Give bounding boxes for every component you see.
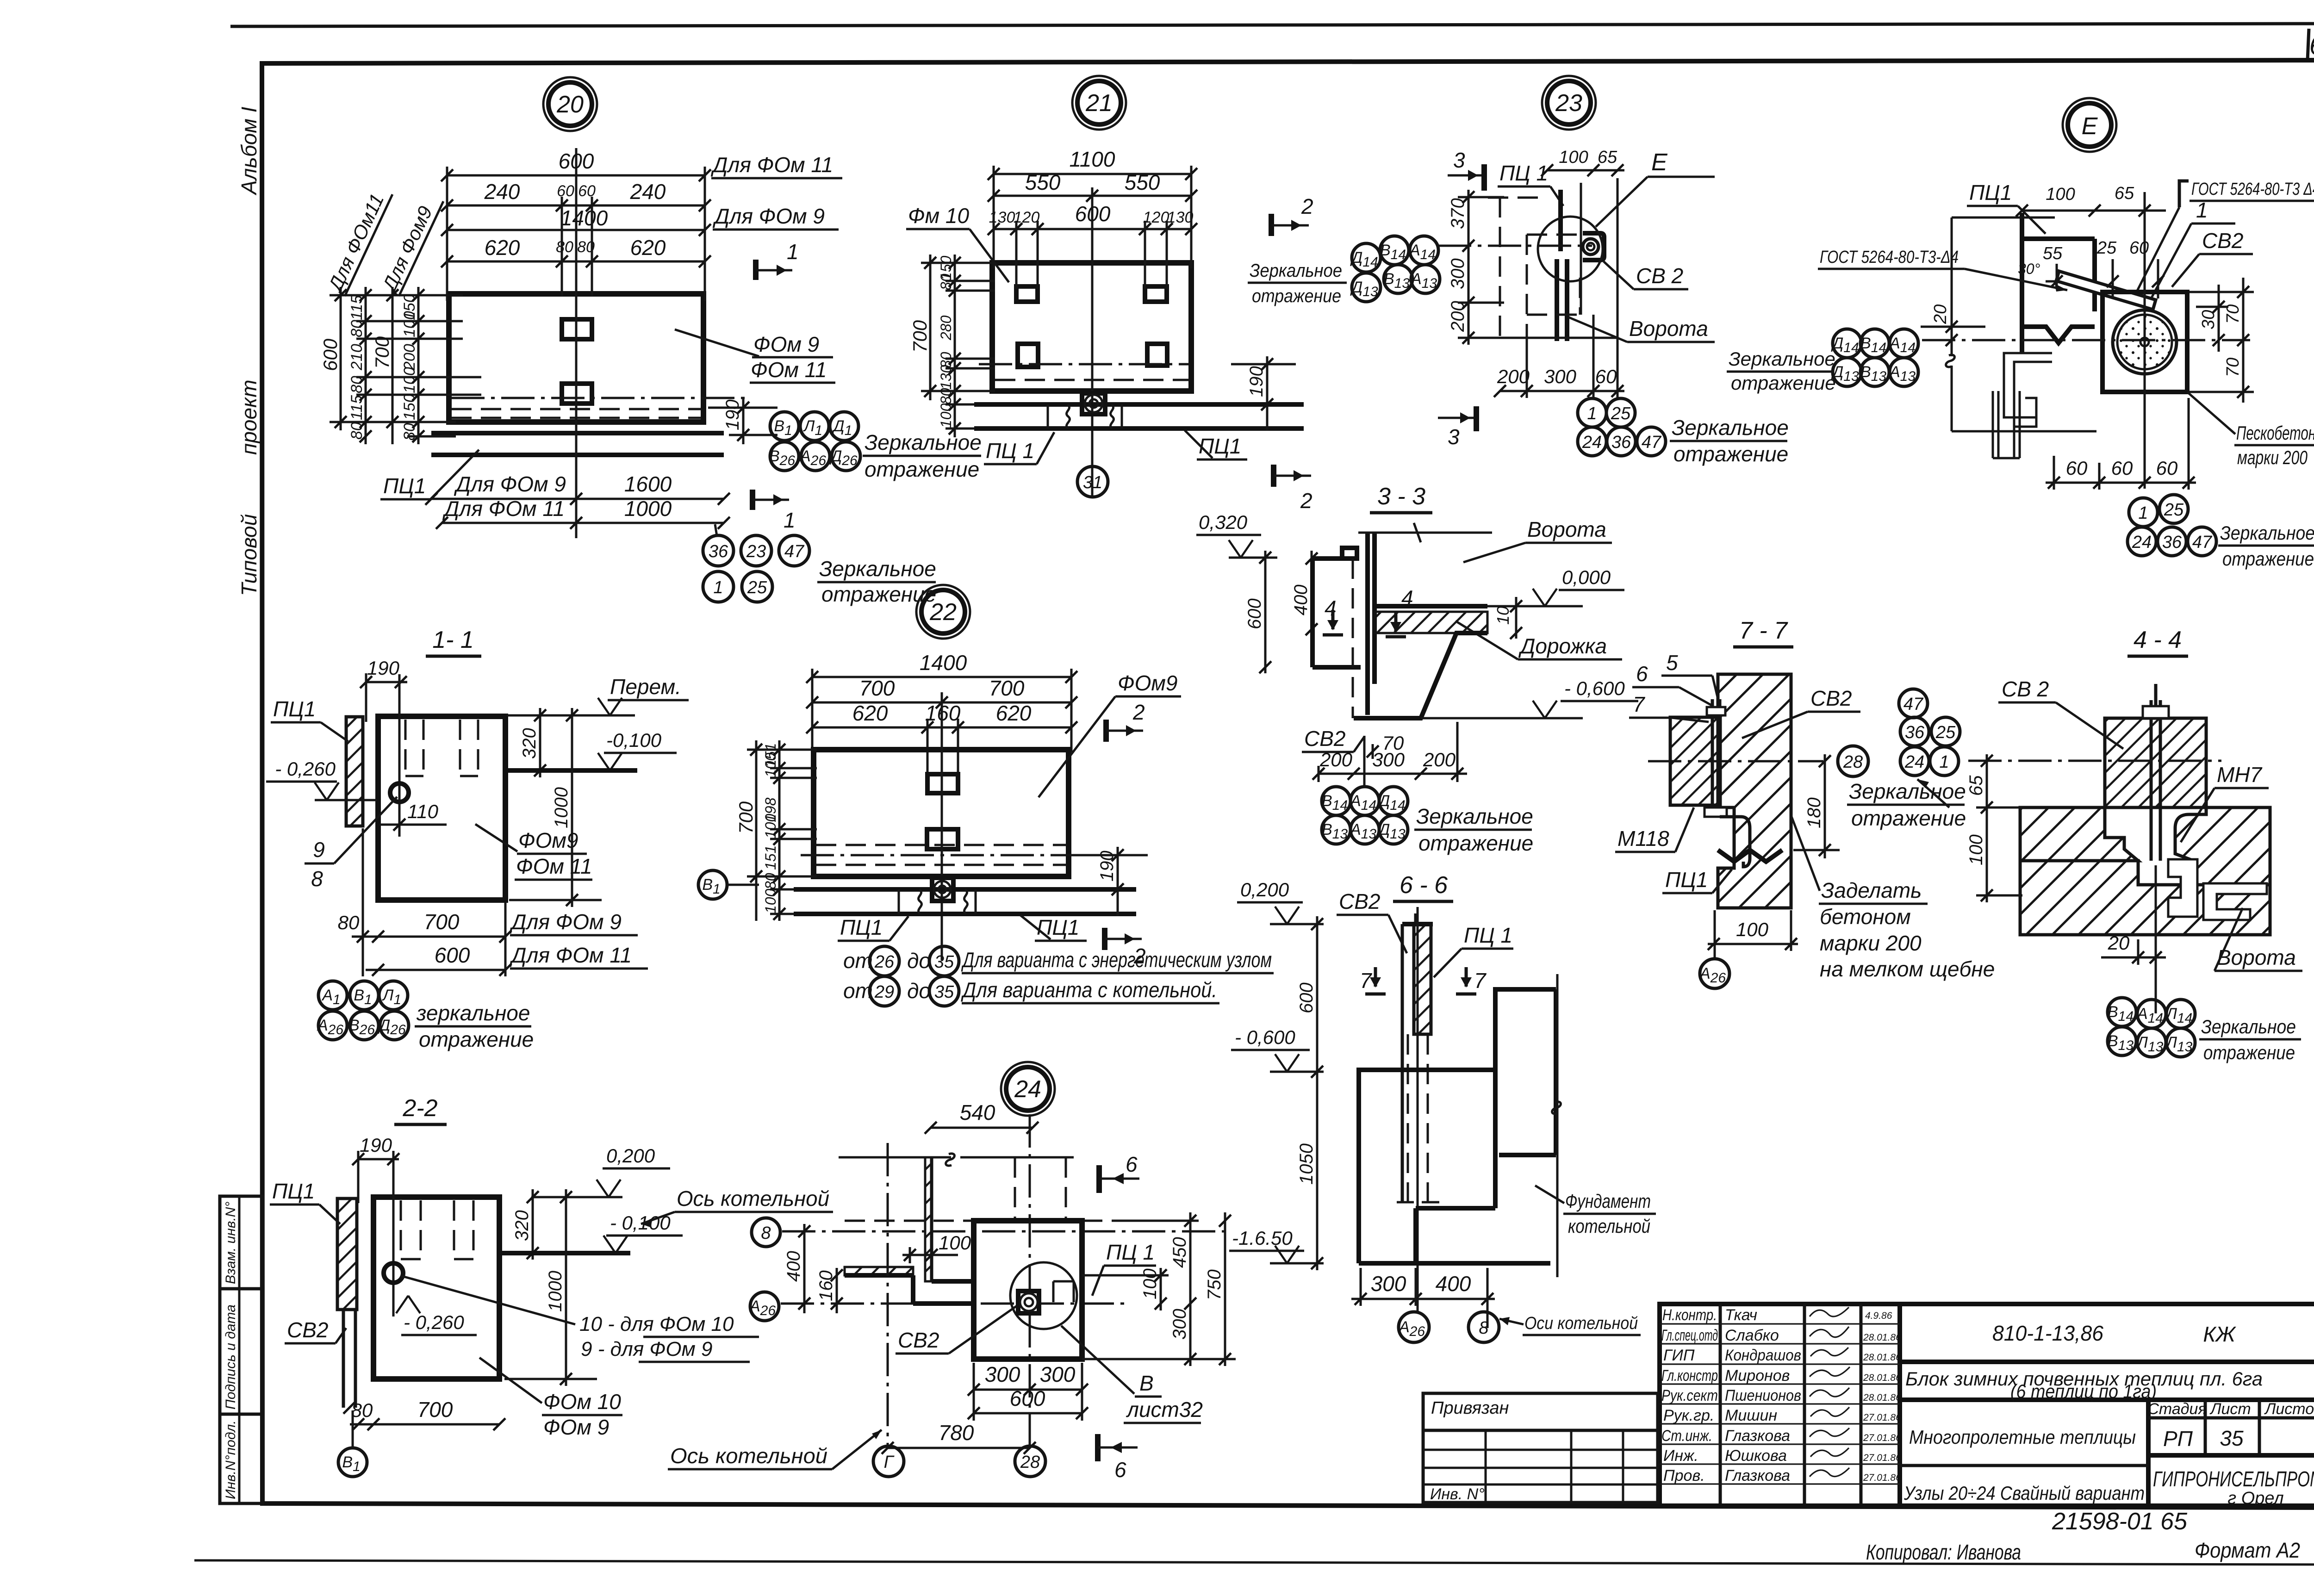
svg-text:600: 600 xyxy=(319,338,341,371)
dim 100 7-7 xyxy=(1708,910,1798,951)
axis 8 circle xyxy=(752,1218,780,1247)
svg-text:22: 22 xyxy=(929,599,957,626)
label ПЦ1 7-7 xyxy=(1662,868,1732,893)
svg-text:1050: 1050 xyxy=(1296,1143,1317,1185)
node 23 bottom dims 200 300 60 xyxy=(1494,178,1624,398)
svg-text:4: 4 xyxy=(1325,596,1337,620)
svg-text:ПЦ1: ПЦ1 xyxy=(1037,915,1079,939)
dim extensions xyxy=(812,669,1071,777)
dim 550 550 xyxy=(988,170,1197,202)
svg-text:отражение: отражение xyxy=(1673,442,1788,466)
foundation block 2-2 xyxy=(373,1197,499,1379)
svg-text:130: 130 xyxy=(1167,209,1194,226)
circles 1 25 24 36 47 node23 xyxy=(1578,398,1666,456)
dim extensions node21 xyxy=(994,166,1191,289)
svg-text:ФОм9: ФОм9 xyxy=(518,828,578,852)
left dim 400 xyxy=(1291,551,1318,657)
svg-text:1: 1 xyxy=(713,578,723,597)
circles 47 36 25 24 1 7-7 xyxy=(1899,689,1960,776)
svg-text:Зеркальное: Зеркальное xyxy=(819,557,936,581)
dim 780 24 xyxy=(882,1421,1036,1454)
svg-text:на мелком щебне: на мелком щебне xyxy=(1820,957,1995,981)
lintel edge thick 2-2 xyxy=(499,1251,630,1255)
svg-text:110: 110 xyxy=(407,801,439,822)
elevation -0,100 xyxy=(598,729,677,770)
node 23 centerline horizontal xyxy=(1438,245,1592,247)
svg-text:24: 24 xyxy=(1904,752,1924,772)
circle 31 xyxy=(1077,466,1108,497)
leader to circles xyxy=(715,524,717,536)
dim 320 2-2 xyxy=(512,1189,539,1260)
svg-text:120: 120 xyxy=(1143,209,1169,226)
centerline horizontal E xyxy=(1922,339,2250,342)
svg-text:100: 100 xyxy=(939,1232,971,1254)
svg-text:ФОм 11: ФОм 11 xyxy=(751,358,827,382)
svg-text:47: 47 xyxy=(784,542,805,561)
svg-text:- 0,260: - 0,260 xyxy=(275,758,336,780)
left dim column lines xyxy=(330,287,481,444)
svg-text:ГОСТ 5264-80-Т3-Δ4: ГОСТ 5264-80-Т3-Δ4 xyxy=(1820,248,1959,267)
node 23 dashed pile outline xyxy=(1488,197,1580,338)
dim 320 xyxy=(519,708,546,777)
label СВ2 node23 xyxy=(1604,261,1688,289)
svg-text:ПЦ1: ПЦ1 xyxy=(383,474,426,498)
svg-text:600: 600 xyxy=(559,149,594,173)
svg-text:Зеркальное: Зеркальное xyxy=(1672,416,1789,440)
dim 1000 xyxy=(509,708,602,907)
svg-text:25: 25 xyxy=(747,578,767,597)
svg-text:Гл.спец.отд: Гл.спец.отд xyxy=(1661,1327,1718,1344)
svg-text:ПЦ1: ПЦ1 xyxy=(272,1179,315,1203)
labels ПЦ1 node21 xyxy=(984,432,1054,464)
svg-text:(6 теплиц по 1га): (6 теплиц по 1га) xyxy=(2010,1380,2157,1402)
label Зеркальное отражение 3-3 xyxy=(1414,804,1533,855)
bottom dims 3-3 xyxy=(1313,722,1467,782)
svg-text:64: 64 xyxy=(2309,31,2314,61)
left dims 65 100 4-4 xyxy=(1976,754,2022,902)
svg-text:240: 240 xyxy=(484,180,520,204)
svg-text:Е: Е xyxy=(1651,149,1668,176)
label Перем. xyxy=(598,675,689,715)
title block outline xyxy=(1660,1304,2314,1506)
svg-text:Ст.инж.: Ст.инж. xyxy=(1661,1427,1712,1445)
svg-text:55: 55 xyxy=(2043,244,2063,263)
svg-text:28.01.86: 28.01.86 xyxy=(1863,1352,1901,1363)
svg-text:проект: проект xyxy=(237,379,261,455)
extension verticals xyxy=(363,828,505,976)
section mark 6 bottom xyxy=(1098,1434,1138,1482)
pile ПЦ1 hatched xyxy=(346,717,363,826)
svg-text:РП: РП xyxy=(2163,1427,2193,1451)
dim 100 65 xyxy=(1541,148,1624,176)
top wall line 24 xyxy=(839,1154,1074,1166)
node 21 dash-dot buried line xyxy=(979,363,1189,366)
svg-text:отражение: отражение xyxy=(2222,548,2314,570)
svg-text:Привязан: Привязан xyxy=(1431,1398,1509,1418)
node 21 left dims xyxy=(921,255,995,437)
bottom dim 600 xyxy=(366,943,648,976)
dim 130 120 600 120 130 xyxy=(988,202,1197,235)
label Заделать бетоном марки 200 на мелком щебне xyxy=(1791,815,1995,981)
label Зеркальное отражение 2 xyxy=(817,557,936,606)
svg-text:80: 80 xyxy=(338,912,360,933)
svg-text:35: 35 xyxy=(934,982,954,1002)
detail circle 21 xyxy=(1072,76,1126,130)
pile dashed 3-3 xyxy=(1352,559,1354,718)
dim row 240 60 60 240 xyxy=(441,180,711,211)
svg-text:до: до xyxy=(907,979,931,1003)
svg-text:Копировал: Иванова: Копировал: Иванова xyxy=(1866,1540,2021,1564)
svg-text:Для ФОм 11: Для ФОм 11 xyxy=(509,943,632,967)
label 9/8 xyxy=(305,797,397,891)
label ФОм 10 ФОм 9 xyxy=(479,1358,622,1439)
anchor circle xyxy=(390,783,409,802)
svg-text:1- 1: 1- 1 xyxy=(432,627,474,653)
dim 400 24 xyxy=(784,1224,810,1313)
bolt plate xyxy=(1082,393,1105,414)
labels 5 6 7 xyxy=(1661,651,1718,699)
svg-text:100: 100 xyxy=(1966,834,1986,865)
svg-text:Лист: Лист xyxy=(2209,1400,2251,1418)
svg-text:- 0,600: - 0,600 xyxy=(1564,677,1625,699)
svg-text:- 0,600: - 0,600 xyxy=(1235,1026,1295,1048)
dim row 620 80 80 620 xyxy=(441,236,711,267)
svg-text:700: 700 xyxy=(735,801,757,834)
centerline 4-4 xyxy=(1968,760,2221,762)
dim 600 top xyxy=(441,149,711,181)
svg-text:21: 21 xyxy=(1085,90,1113,117)
svg-text:600: 600 xyxy=(1010,1386,1045,1410)
bolt plate 24 xyxy=(1018,1291,1039,1313)
left dim 600 6-6 xyxy=(1296,916,1323,1078)
svg-text:1000: 1000 xyxy=(545,1271,566,1312)
stadia block xyxy=(2146,1400,2151,1508)
svg-text:4 - 4: 4 - 4 xyxy=(2134,627,2182,653)
node 20 dashed edge lines xyxy=(451,408,701,410)
elevation 0,320 xyxy=(1196,511,1277,558)
svg-text:7: 7 xyxy=(1474,969,1487,993)
svg-text:190: 190 xyxy=(367,657,400,679)
svg-text:Е: Е xyxy=(2082,113,2098,140)
wall hatched 7-7 xyxy=(1718,674,1791,908)
svg-text:СВ2: СВ2 xyxy=(1339,889,1380,913)
svg-text:М118: М118 xyxy=(1617,826,1669,851)
label ПЦ1 xyxy=(1498,161,1563,206)
svg-text:лист32: лист32 xyxy=(1126,1397,1203,1422)
svg-text:27.01.86: 27.01.86 xyxy=(1863,1453,1901,1463)
trench profile 3-3 xyxy=(1354,633,1487,718)
wall notch 7-7 xyxy=(1718,850,1782,862)
lower slab hatched 4-4 xyxy=(2020,807,2138,861)
svg-text:до: до xyxy=(907,949,931,973)
svg-text:65: 65 xyxy=(1966,775,1986,796)
svg-text:280: 280 xyxy=(938,315,954,341)
node 22 outline xyxy=(814,750,1069,876)
detail circle 24 xyxy=(1001,1062,1055,1116)
svg-text:отражение: отражение xyxy=(1731,372,1836,394)
svg-text:Юшкова: Юшкова xyxy=(1725,1447,1787,1465)
svg-text:1400: 1400 xyxy=(560,206,608,230)
svg-text:Взам. инв.N°: Взам. инв.N° xyxy=(223,1202,238,1284)
svg-text:80: 80 xyxy=(351,1399,373,1421)
СВ2 block hatched 7-7 xyxy=(1670,717,1720,805)
node 23 gate post lines xyxy=(1558,190,1563,251)
svg-text:780: 780 xyxy=(939,1421,974,1445)
svg-text:60: 60 xyxy=(2129,238,2149,258)
label ФОм9 ФОм11 xyxy=(475,824,592,880)
svg-text:80: 80 xyxy=(348,376,366,393)
right dims 30 70 70 E xyxy=(2189,278,2254,403)
axis А26 horizontal dash-dot xyxy=(781,1303,1126,1305)
svg-text:ПЦ 1: ПЦ 1 xyxy=(1499,161,1548,185)
dim 1400 xyxy=(441,206,711,236)
detail circle 22 xyxy=(916,585,970,639)
svg-text:620: 620 xyxy=(852,701,888,725)
bottom dim row Для ФОм 11 1000 xyxy=(436,497,730,529)
svg-text:Для ФОм 11: Для ФОм 11 xyxy=(710,153,833,177)
svg-text:Формат А2: Формат А2 xyxy=(2195,1538,2300,1562)
circle В1 node22 left xyxy=(698,870,759,899)
svg-text:810-1-13,86: 810-1-13,86 xyxy=(1992,1321,2103,1345)
left dim 1050 6-6 xyxy=(1296,1072,1323,1270)
node 20 anchor hole bottom xyxy=(562,384,592,404)
svg-text:400: 400 xyxy=(1436,1272,1471,1296)
svg-text:80: 80 xyxy=(348,422,366,440)
circle 28 xyxy=(1015,1446,1045,1477)
gate post 3-3 xyxy=(1365,532,1370,715)
name table rows xyxy=(1660,1324,1900,1484)
label СВ2 6-6 xyxy=(1337,889,1407,953)
elevation -1.6.50 6-6 xyxy=(1229,1227,1324,1263)
dim 1000 2-2 xyxy=(504,1189,597,1386)
circles 1 25 / 24 36 47 E xyxy=(2127,495,2216,556)
svg-text:100: 100 xyxy=(762,814,779,838)
svg-text:29: 29 xyxy=(874,982,894,1002)
dim 55 25 60 E xyxy=(2043,238,2164,298)
svg-text:100: 100 xyxy=(938,403,954,428)
circles А1 В1 Л1 / А26 В26 Д26 xyxy=(318,981,409,1040)
left dim rotated texts xyxy=(319,294,418,441)
section title 3-3 xyxy=(1370,483,1432,513)
dim 190 xyxy=(352,1134,399,1203)
node 21 footing plan outline xyxy=(992,263,1191,391)
svg-text:20: 20 xyxy=(1931,304,1950,324)
label Ось котельной 2-2 xyxy=(641,1186,833,1227)
dim 10 slab xyxy=(1493,597,1522,639)
elevation -0,260 xyxy=(266,758,377,800)
svg-text:700: 700 xyxy=(909,320,931,353)
circles Д14 В14 А14 / Д13 В13 А13 E xyxy=(1833,329,1918,386)
circles 36 23 47 1 25 xyxy=(703,535,809,602)
svg-text:Зеркальное: Зеркальное xyxy=(1250,261,1342,281)
svg-text:100: 100 xyxy=(1140,1268,1160,1299)
svg-text:Зеркальное: Зеркальное xyxy=(865,430,982,454)
svg-text:6: 6 xyxy=(1114,1458,1126,1482)
svg-text:Зеркальное: Зеркальное xyxy=(1849,779,1966,803)
svg-text:35: 35 xyxy=(2220,1426,2244,1450)
svg-text:СВ 2: СВ 2 xyxy=(2002,677,2049,701)
sloped anchor plate E xyxy=(2056,271,2156,310)
svg-text:151: 151 xyxy=(762,845,779,870)
svg-text:400: 400 xyxy=(1291,584,1311,615)
svg-text:60: 60 xyxy=(557,182,574,200)
svg-text:Листов: Листов xyxy=(2264,1400,2314,1418)
label ПЦ1 6-6 xyxy=(1434,923,1513,977)
label Ворота 4-4 xyxy=(2214,908,2302,971)
svg-text:Гл.констр: Гл.констр xyxy=(1661,1367,1718,1385)
svg-text:1100: 1100 xyxy=(1070,147,1115,171)
svg-text:190: 190 xyxy=(722,399,743,430)
svg-text:2-2: 2-2 xyxy=(402,1095,437,1122)
section 4 marks 3-3 xyxy=(1323,596,1343,635)
axis 8 horizontal dash-dot xyxy=(782,1230,1229,1233)
svg-text:20: 20 xyxy=(556,91,584,118)
leader down to circles 3-3 xyxy=(1363,736,1366,787)
svg-text:бетоном: бетоном xyxy=(1820,905,1911,929)
svg-text:47: 47 xyxy=(1903,695,1924,714)
svg-text:5: 5 xyxy=(1666,651,1678,675)
left dim 600 xyxy=(1244,551,1271,673)
svg-text:600: 600 xyxy=(1244,598,1265,629)
svg-text:620: 620 xyxy=(485,236,520,260)
top elevation line xyxy=(507,714,635,717)
svg-text:620: 620 xyxy=(630,236,666,260)
svg-text:21598-01 65: 21598-01 65 xyxy=(2052,1508,2188,1535)
svg-text:ФОм 10: ФОм 10 xyxy=(543,1390,621,1414)
svg-text:550: 550 xyxy=(1025,170,1061,194)
svg-text:36: 36 xyxy=(1611,433,1631,452)
elevation -0,600 6-6 xyxy=(1231,1026,1324,1072)
circle Г xyxy=(873,1446,904,1477)
wall strip horizontal hatched 24 xyxy=(845,1267,913,1275)
signatures squiggles xyxy=(1810,1307,1850,1477)
svg-text:3 - 3: 3 - 3 xyxy=(1377,483,1425,510)
svg-text:25: 25 xyxy=(1611,404,1631,423)
svg-text:0,000: 0,000 xyxy=(1562,566,1611,588)
svg-text:Кондрашов: Кондрашов xyxy=(1725,1347,1801,1364)
svg-text:Заделать: Заделать xyxy=(1821,878,1922,902)
svg-text:25: 25 xyxy=(2164,500,2184,520)
label Ворота node23 xyxy=(1568,317,1715,342)
sand concrete block E xyxy=(2103,292,2187,392)
svg-text:47: 47 xyxy=(2192,533,2213,552)
label Оси котельной 6-6 xyxy=(1499,1314,1641,1335)
svg-text:ПЦ 1: ПЦ 1 xyxy=(1464,923,1512,947)
svg-text:200: 200 xyxy=(1423,749,1456,770)
gate top line xyxy=(1358,532,1492,534)
svg-text:котельной: котельной xyxy=(1568,1215,1650,1237)
dashed slots 2-2 xyxy=(401,1200,473,1259)
dim 100 24 xyxy=(902,1232,971,1263)
svg-text:27.01.86: 27.01.86 xyxy=(1863,1433,1901,1443)
svg-text:24: 24 xyxy=(1014,1076,1041,1103)
svg-text:ГОСТ 5264-80-Т3 Δ4: ГОСТ 5264-80-Т3 Δ4 xyxy=(2191,180,2314,199)
svg-text:100: 100 xyxy=(1559,148,1588,167)
svg-text:60: 60 xyxy=(2156,457,2178,479)
svg-text:Зеркальное: Зеркальное xyxy=(1729,348,1835,370)
detail circle 23 xyxy=(1542,76,1596,130)
axis Г vertical dash-dot xyxy=(887,1143,889,1446)
elevation -0,600 3-3 xyxy=(1421,677,1638,718)
section mark 3 top xyxy=(1448,148,1484,191)
rotated label Для ФОм 11 left xyxy=(323,190,392,296)
label Зеркальное отражение 4-4 xyxy=(2199,1016,2301,1063)
bolt indicator circle 24 xyxy=(1010,1262,1077,1329)
svg-text:9: 9 xyxy=(313,838,325,862)
svg-text:Зеркальное: Зеркальное xyxy=(2220,522,2314,544)
svg-text:80: 80 xyxy=(348,320,366,337)
svg-text:1: 1 xyxy=(2138,503,2148,523)
step outline 24 xyxy=(913,1275,974,1304)
centerline 2-2 xyxy=(392,1151,395,1317)
leader to 10-для ФОм10 xyxy=(401,1276,759,1362)
centerline 6-6 xyxy=(1417,907,1419,1312)
node 23 weld plate with bolt xyxy=(1583,233,1604,260)
svg-text:4.9.86: 4.9.86 xyxy=(1865,1310,1892,1321)
svg-text:0,200: 0,200 xyxy=(606,1145,655,1167)
detail circle Е xyxy=(2063,98,2116,152)
paper top edge xyxy=(230,24,2314,26)
label Ворота 3-3 xyxy=(1463,517,1612,562)
lintel edge thick line xyxy=(505,768,637,773)
svg-text:65: 65 xyxy=(1598,148,1617,167)
svg-text:80: 80 xyxy=(938,273,954,290)
svg-text:300: 300 xyxy=(1371,1272,1406,1296)
svg-text:300: 300 xyxy=(1040,1362,1076,1386)
svg-text:190: 190 xyxy=(1246,366,1267,397)
svg-text:0,200: 0,200 xyxy=(1240,879,1289,900)
label СВ2 2-2 xyxy=(285,1318,346,1343)
svg-text:Для варианта с энергетическим: Для варианта с энергетическим узлом xyxy=(961,948,1272,972)
left dim ticks xyxy=(335,289,424,442)
node 22 dashed lines xyxy=(816,844,1067,846)
name table texts xyxy=(1661,1306,1801,1484)
node 22 centerline xyxy=(941,692,943,960)
svg-text:Глазкова: Глазкова xyxy=(1725,1427,1790,1445)
svg-text:Фм 10: Фм 10 xyxy=(908,204,969,228)
svg-text:ФОм 11: ФОм 11 xyxy=(516,854,592,878)
svg-text:60: 60 xyxy=(2066,457,2088,479)
node 21 dashed line xyxy=(995,379,1189,381)
svg-text:ПЦ 1: ПЦ 1 xyxy=(1106,1240,1155,1264)
node 20 footing plan outline xyxy=(449,294,703,422)
pile edge lines near bolt 24 xyxy=(1053,1281,1074,1302)
label Е with leader xyxy=(1596,149,1715,227)
labels ПЦ1 node22 xyxy=(838,915,908,941)
svg-text:35: 35 xyxy=(934,952,954,972)
svg-text:7 - 7: 7 - 7 xyxy=(1739,617,1788,644)
lower channel E xyxy=(1993,391,2020,458)
label Фундамент котельной xyxy=(1535,1186,1656,1237)
svg-text:Для ФОм 9: Для ФОм 9 xyxy=(712,204,825,228)
svg-text:2: 2 xyxy=(1132,700,1145,724)
svg-text:отражение: отражение xyxy=(1851,806,1966,830)
weld note ГОСТ 5264-80-Т3-Δ4 left xyxy=(1818,248,2067,292)
svg-text:2: 2 xyxy=(1300,489,1313,513)
svg-text:70: 70 xyxy=(2223,358,2243,377)
svg-text:СВ2: СВ2 xyxy=(287,1318,328,1342)
svg-text:СВ2: СВ2 xyxy=(898,1328,939,1352)
elevation 0,000 xyxy=(1487,566,1624,606)
svg-text:ПЦ1: ПЦ1 xyxy=(1665,868,1708,892)
svg-text:СВ2: СВ2 xyxy=(1810,686,1852,710)
svg-text:70: 70 xyxy=(1382,732,1404,754)
svg-text:ГИП: ГИП xyxy=(1663,1347,1695,1364)
svg-text:450: 450 xyxy=(1169,1237,1190,1268)
label Зеркальное отражение node21 xyxy=(1248,261,1347,306)
foundation block 1-1 xyxy=(378,716,505,900)
circle 28 7-7 xyxy=(1838,746,1868,776)
